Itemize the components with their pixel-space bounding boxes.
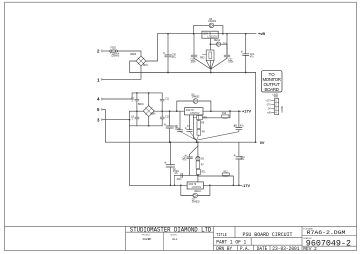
diode D1: [203, 110, 231, 118]
svg-text:PR1: PR1: [203, 118, 208, 120]
svg-text:REV 2: REV 2: [303, 246, 317, 252]
svg-text:IC03 79: IC03 79: [188, 184, 197, 186]
svg-text:100n: 100n: [228, 62, 234, 64]
svg-text:+vB: +vB: [258, 32, 265, 36]
svg-text:PART 1 OF 1: PART 1 OF 1: [216, 240, 246, 246]
diode D9: [222, 173, 229, 176]
capacitor C8: [185, 154, 193, 175]
capacitor C9: [197, 111, 242, 140]
svg-text:PSU BOARD CIRCUIT: PSU BOARD CIRCUIT: [243, 232, 293, 238]
fuse FS02: [110, 49, 118, 52]
capacitor C5: [178, 111, 197, 140]
svg-text:IC04 78: IC04 78: [203, 33, 212, 35]
regulator IC03: [187, 182, 203, 189]
svg-text:4700u: 4700u: [173, 171, 180, 173]
wire node5 centre tap: [102, 109, 106, 142]
svg-text:W04: W04: [143, 65, 148, 67]
pin tick 5: [101, 108, 103, 110]
svg-text:100n: 100n: [175, 129, 181, 131]
pin tick 4: [101, 98, 103, 100]
svg-text:MODEL: MODEL: [171, 235, 177, 237]
svg-text:L7917CV: L7917CV: [192, 187, 202, 189]
wire BR01 ac top: [148, 93, 150, 106]
wire 0V link: [255, 73, 257, 143]
svg-text:W04: W04: [151, 113, 156, 115]
BR01 minus column: [129, 111, 131, 185]
svg-text:DATE: DATE: [257, 246, 268, 252]
node 1: [0, 0, 1, 1]
svg-text:+17V: +17V: [242, 110, 251, 114]
svg-text:PR2: PR2: [200, 57, 205, 59]
connector CON5: [271, 98, 278, 114]
svg-text:-17V: -17V: [242, 184, 250, 188]
svg-text:FS02: FS02: [111, 48, 117, 50]
regulator IC04: [202, 31, 218, 38]
wire BR01 minus: [130, 110, 144, 112]
BR01 ac top line: [132, 92, 162, 94]
svg-text:P.A.: P.A.: [240, 246, 250, 252]
svg-text:-17V: -17V: [266, 104, 271, 106]
svg-text:100n: 100n: [177, 179, 183, 181]
wire BR01 ac bottom: [148, 117, 150, 126]
diode D8 bypass loop: [177, 99, 211, 112]
TO MONITOR OUTPUT BOARD box: [262, 71, 283, 92]
negative raw line: [130, 184, 188, 186]
IC04 ground pin wire: [209, 38, 211, 50]
wire negative adj branch: [175, 174, 198, 176]
pin tick 1: [101, 78, 103, 80]
diode D7 bypass loop: [181, 185, 210, 198]
node 4: [0, 0, 1, 1]
capacitor C2: [164, 142, 174, 185]
svg-text:+vB: +vB: [267, 112, 271, 114]
svg-text:CON5: CON5: [282, 105, 284, 112]
wire fuse to bridge top: [118, 51, 142, 56]
svg-text:BOARD: BOARD: [264, 87, 279, 92]
capacitor C1: [164, 111, 173, 142]
0V return line (top section): [130, 72, 256, 74]
svg-text:0V: 0V: [260, 141, 265, 145]
pin tick 3: [101, 119, 103, 121]
capacitor C12 (bridge bottom-right): [160, 111, 164, 126]
svg-text:48V: 48V: [274, 97, 279, 99]
svg-text:100n: 100n: [191, 62, 197, 64]
svg-text:(20mm): (20mm): [112, 56, 120, 58]
pin tick 2: [101, 50, 103, 52]
trimmer PR1: [193, 115, 202, 120]
node 3: [0, 0, 1, 1]
capacitor C34: [241, 34, 249, 73]
-17V rail: [203, 184, 242, 186]
svg-text:PROJECT: PROJECT: [142, 235, 151, 237]
capacitor C11 (bridge top-right): [160, 93, 164, 111]
wire BR02 plus output: [146, 34, 158, 61]
bridge rectifier BR02: [136, 56, 146, 66]
svg-text:23-03-2001: 23-03-2001: [272, 246, 299, 252]
0V line (middle): [105, 141, 255, 143]
svg-text:1N4002: 1N4002: [192, 202, 201, 204]
diode D11: [210, 42, 227, 54]
svg-text:+17V: +17V: [265, 100, 271, 102]
capacitor C32: [224, 34, 230, 59]
wire BR02 minus output: [130, 61, 136, 73]
svg-text:STUDIOMASTER DIAMOND LTD: STUDIOMASTER DIAMOND LTD: [130, 226, 212, 233]
schematic text labels: [97, 49, 100, 123]
node 2: [0, 0, 1, 1]
capacitor C30: [163, 34, 171, 73]
ground star point (top regulator): [194, 58, 227, 72]
wire node3: [102, 119, 130, 121]
capacitor C4 (bridge bottom-left): [135, 111, 139, 126]
svg-text:1N4002: 1N4002: [192, 97, 201, 99]
junction dots: [129, 33, 257, 186]
resistor R8: [197, 115, 201, 128]
capacitor C6: [175, 173, 183, 185]
resistor R9: [197, 129, 201, 140]
svg-text:0V: 0V: [268, 108, 271, 110]
svg-text:IC02 78: IC02 78: [186, 110, 195, 112]
svg-text:1N4002: 1N4002: [208, 21, 217, 23]
wire node1 to BR02 ac: [102, 66, 141, 79]
svg-text:BR01: BR01: [138, 104, 144, 106]
capacitor C7: [185, 115, 197, 140]
ground star point (positive side): [193, 118, 196, 143]
title block: [5, 226, 357, 250]
diode D6 bypass loop: [194, 23, 223, 34]
svg-text:REG3: REG3: [195, 191, 202, 193]
svg-text:TITLE: TITLE: [216, 232, 227, 238]
bridge rectifier BR01: [143, 106, 154, 117]
capacitor C10: [234, 142, 242, 185]
resistor R7: [196, 161, 200, 182]
svg-text:REG1: REG1: [214, 40, 221, 42]
svg-text:BR02: BR02: [131, 54, 137, 56]
capacitor C31: [191, 34, 197, 59]
capacitor C3 (bridge top-left): [135, 93, 139, 111]
svg-text:L7817CV: L7817CV: [190, 113, 200, 115]
trimmer PR2: [203, 50, 215, 60]
svg-text:ALL: ALL: [172, 238, 178, 241]
wire node2 to fuse: [102, 50, 110, 52]
BR01 plus wire: [154, 110, 184, 112]
diode D5 (negative chain): [196, 154, 200, 161]
+17V rail: [203, 110, 241, 112]
node 5: [0, 0, 1, 1]
svg-text:162BP: 162BP: [142, 238, 151, 241]
regulator IC02: [185, 108, 204, 115]
svg-text:DRN BY: DRN BY: [216, 246, 232, 252]
ground star point (negative side): [190, 142, 198, 154]
svg-text:R7A6-2.DGM: R7A6-2.DGM: [307, 229, 346, 236]
wire node4 to BR01: [102, 93, 132, 99]
svg-text:L7815CV: L7815CV: [208, 36, 218, 38]
rail +vB: [158, 33, 257, 35]
BR01 bottom line: [130, 125, 163, 127]
